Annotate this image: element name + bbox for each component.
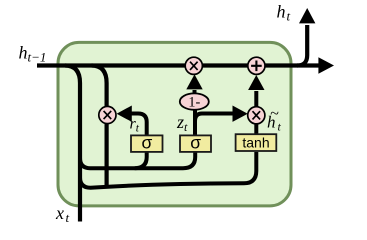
wire: z branch right to htilde multiply circle: [195, 114, 233, 122]
wire: 1- ellipse up to first multiply circle + arrowhead: [193, 90, 197, 94]
tanh box: [236, 134, 277, 151]
wire: V2 reset branch down (x=106.6): [92, 66, 107, 186]
sigma box z: [180, 135, 211, 152]
wire: sigma-r output up and left into reset circle: [131, 114, 147, 136]
wire: h(t) vertical branch up: [297, 25, 307, 66]
sigma box r: [131, 135, 163, 152]
1- ellipse: [180, 93, 209, 109]
wire: tanh output up to htilde circle: [254, 124, 258, 134]
htilde multiply circle: [248, 107, 265, 124]
wire: H2 lower slanted line from V1 to tanh riser: [80, 152, 256, 188]
svg-text:1-: 1-: [188, 95, 200, 111]
wire: htilde circle up to plus circle + arrowhead: [254, 91, 258, 107]
svg-text:σ: σ: [141, 132, 152, 152]
wire: riser into sigma-r: [135, 152, 147, 168]
svg-text:tanh: tanh: [242, 134, 269, 150]
wire: h(t-1) main horizontal line: [37, 63, 320, 67]
plus circle on h-line: [248, 57, 265, 74]
svg-text:σ: σ: [190, 132, 201, 152]
wire: V1 branch from h-line down (x_t column, x=80): [65, 66, 80, 222]
reset multiply circle: [99, 106, 116, 123]
arrowhead into htilde multiply circle: [233, 106, 248, 122]
multiply circle on h-line (update gate): [185, 57, 202, 74]
wire: h(t) up arrowhead: [299, 8, 315, 23]
GRU cell body (green rounded box): [58, 42, 291, 206]
wire: output arrowhead right: [318, 57, 334, 73]
wire: z line from sigma-z up to 1- ellipse: [193, 108, 197, 135]
arrowhead into reset multiply circle: [117, 106, 132, 122]
wire: H1 horizontal from V1 to sigma-z riser: [80, 152, 195, 168]
